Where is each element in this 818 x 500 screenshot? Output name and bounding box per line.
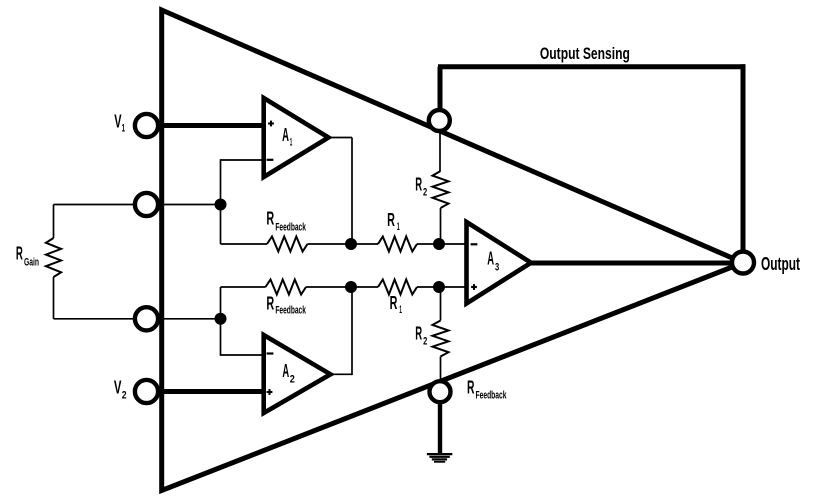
svg-text:1: 1 bbox=[290, 137, 293, 149]
svg-text:1: 1 bbox=[399, 304, 402, 316]
svg-text:Feedback: Feedback bbox=[476, 389, 508, 401]
svg-text:R: R bbox=[390, 293, 398, 313]
svg-text:Gain: Gain bbox=[24, 256, 39, 268]
svg-text:R: R bbox=[16, 243, 23, 263]
svg-text:2: 2 bbox=[423, 186, 427, 198]
svg-text:R: R bbox=[467, 378, 475, 398]
svg-text:A: A bbox=[282, 361, 289, 381]
svg-text:3: 3 bbox=[495, 262, 499, 274]
svg-text:2: 2 bbox=[122, 389, 127, 401]
svg-text:R: R bbox=[266, 208, 274, 228]
svg-text:V: V bbox=[114, 378, 122, 398]
svg-text:1: 1 bbox=[397, 221, 400, 233]
svg-text:Output Sensing: Output Sensing bbox=[540, 44, 630, 63]
svg-text:A: A bbox=[282, 125, 289, 145]
svg-text:2: 2 bbox=[423, 335, 427, 347]
svg-text:R: R bbox=[415, 324, 422, 344]
svg-text:R: R bbox=[415, 175, 422, 195]
svg-text:Feedback: Feedback bbox=[275, 305, 306, 317]
svg-text:Feedback: Feedback bbox=[275, 221, 306, 233]
svg-text:V: V bbox=[114, 111, 121, 131]
svg-text:Output: Output bbox=[761, 254, 800, 274]
svg-text:2: 2 bbox=[290, 374, 295, 386]
svg-text:R: R bbox=[387, 210, 395, 230]
svg-text:A: A bbox=[487, 249, 494, 269]
svg-text:R: R bbox=[266, 293, 274, 313]
svg-text:1: 1 bbox=[122, 122, 125, 134]
